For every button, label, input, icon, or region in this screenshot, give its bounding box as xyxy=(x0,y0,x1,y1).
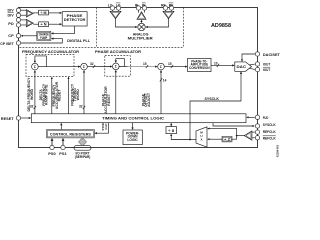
svg-text:DIGITAL PLL: DIGITAL PLL xyxy=(67,38,91,43)
svg-text:RESET: RESET xyxy=(1,117,15,121)
svg-text:MULTIPLIER: MULTIPLIER xyxy=(128,36,153,40)
svg-text:÷ 8: ÷ 8 xyxy=(168,129,174,133)
svg-text:CLK: CLK xyxy=(104,123,108,130)
svg-text:SYSCLK: SYSCLK xyxy=(263,123,276,127)
svg-text:LO: LO xyxy=(116,3,121,7)
svg-text:PUMP: PUMP xyxy=(40,36,48,40)
svg-text:32: 32 xyxy=(90,62,94,66)
svg-text:Σ: Σ xyxy=(115,65,118,69)
svg-text:ADJUST: ADJUST xyxy=(147,92,151,107)
svg-text:÷ 2: ÷ 2 xyxy=(224,138,230,142)
svg-text:15: 15 xyxy=(168,62,172,66)
svg-text:DACISET: DACISET xyxy=(263,53,280,57)
svg-text:(SER/PAR): (SER/PAR) xyxy=(75,155,91,159)
svg-text:PS0: PS0 xyxy=(48,152,56,156)
svg-text:CP ISET: CP ISET xyxy=(0,42,14,46)
svg-text:Σ: Σ xyxy=(34,65,37,69)
svg-text:DIV: DIV xyxy=(8,8,15,12)
svg-text:PS1: PS1 xyxy=(59,152,67,156)
svg-text:IOUT: IOUT xyxy=(263,62,271,66)
svg-text:DETECTOR: DETECTOR xyxy=(64,17,86,22)
svg-text:14: 14 xyxy=(163,79,167,83)
svg-text:RAMP RATE: RAMP RATE xyxy=(45,84,49,105)
svg-text:02199-001: 02199-001 xyxy=(276,144,280,157)
svg-text:TIMING AND CONTROL LOGIC: TIMING AND CONTROL LOGIC xyxy=(102,115,164,120)
svg-text:REFCLK: REFCLK xyxy=(263,137,276,141)
svg-text:IOUT: IOUT xyxy=(263,68,271,72)
svg-text:WORD: WORD xyxy=(76,89,80,101)
svg-text:FREQUENCY ACCUMULATOR: FREQUENCY ACCUMULATOR xyxy=(22,49,79,54)
svg-text:Σ: Σ xyxy=(83,65,86,69)
svg-text:PHASE ACCUMULATOR: PHASE ACCUMULATOR xyxy=(95,49,141,54)
svg-text:CONVERSION: CONVERSION xyxy=(189,66,210,70)
svg-text:÷ M: ÷ M xyxy=(41,11,47,15)
svg-text:WORD: WORD xyxy=(30,88,34,100)
svg-text:RESET: RESET xyxy=(58,89,62,102)
svg-text:FUD: FUD xyxy=(263,116,269,120)
svg-text:SYSCLK: SYSCLK xyxy=(205,97,220,101)
svg-text:15: 15 xyxy=(143,62,147,66)
svg-text:RF: RF xyxy=(169,3,174,7)
svg-text:DAC: DAC xyxy=(237,65,247,69)
svg-text:LOGIC: LOGIC xyxy=(127,138,138,142)
svg-text:AD9858: AD9858 xyxy=(211,23,231,29)
svg-text:10: 10 xyxy=(214,61,218,65)
svg-text:X: X xyxy=(200,138,202,142)
svg-text:LO: LO xyxy=(108,3,113,7)
svg-text:PD: PD xyxy=(8,22,14,26)
svg-text:CP: CP xyxy=(8,34,14,38)
svg-text:RESET: RESET xyxy=(107,93,111,106)
svg-text:REFCLK: REFCLK xyxy=(263,130,276,134)
svg-text:÷ N: ÷ N xyxy=(41,23,48,27)
svg-text:Σ: Σ xyxy=(160,65,163,69)
svg-text:RF: RF xyxy=(161,3,166,7)
svg-text:DIV: DIV xyxy=(8,13,15,17)
svg-text:32: 32 xyxy=(79,104,83,108)
svg-text:CONTROL REGISTERS: CONTROL REGISTERS xyxy=(50,133,92,137)
